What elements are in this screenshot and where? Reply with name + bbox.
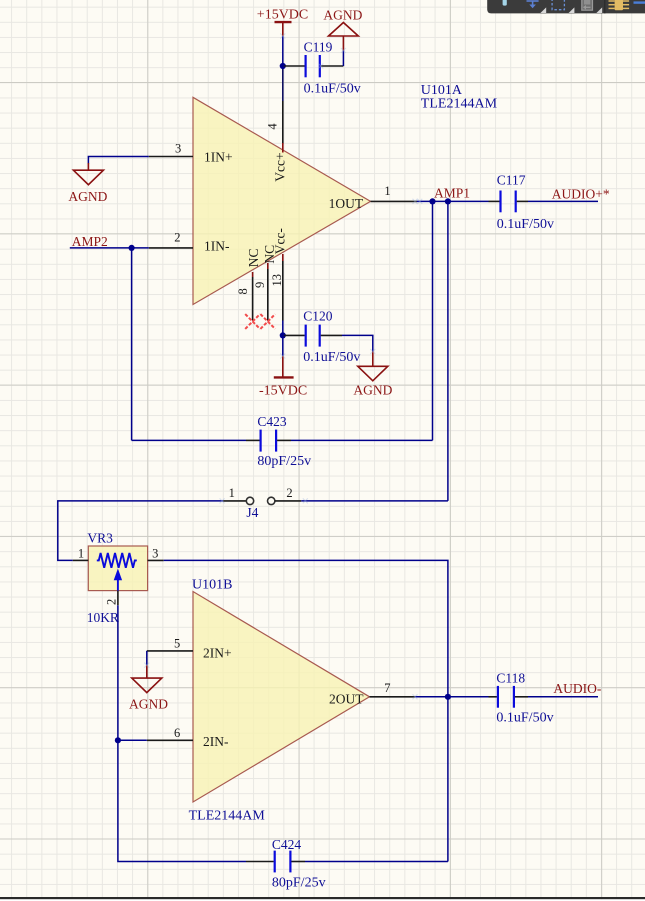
wire 2OUT tap down to C424 [447,697,449,862]
wire +15VDC to junction [282,36,284,66]
svg-text:1OUT: 1OUT [329,196,364,211]
svg-text:Vcc+: Vcc+ [273,152,288,181]
svg-text:0.1uF/50v: 0.1uF/50v [497,217,554,232]
node 2OUT junction [445,694,451,700]
svg-text:2: 2 [174,231,180,245]
svg-text:U101B: U101B [192,578,232,593]
wire AMP1 tap down to J4 pin2 [447,201,449,501]
pin 2 (1IN-) [149,247,193,249]
pin 5 (2IN+) [147,650,193,652]
svg-text:2IN-: 2IN- [203,734,229,749]
capacitor C117 [489,173,554,233]
node C423 tap [429,198,435,204]
svg-text:2: 2 [286,486,292,500]
svg-text:80pF/25v: 80pF/25v [272,876,326,891]
faint vertex marks [144,34,422,700]
svg-text:AGND: AGND [129,697,168,712]
potentiometer VR3 [73,530,164,625]
svg-text:AUDIO+*: AUDIO+* [552,187,610,202]
wire C119 to AGND [342,51,344,67]
svg-text:AUDIO-: AUDIO- [553,681,601,696]
wire junction to pin 4 [282,66,284,101]
wire 1OUT to C117 [417,200,489,202]
pin NC 9 [267,263,269,269]
svg-text:C118: C118 [496,671,525,686]
svg-text:C423: C423 [257,414,287,429]
pin 6 (2IN-) [147,739,193,741]
pin 4 lead [282,101,284,144]
wire VR3 pin2 down [117,605,119,740]
wire C118 to port [528,696,598,698]
svg-text:1IN-: 1IN- [204,239,230,254]
svg-text:1: 1 [384,184,390,198]
svg-text:10KR: 10KR [87,610,119,625]
svg-text:AMP2: AMP2 [72,234,108,249]
svg-text:1IN+: 1IN+ [204,149,233,164]
svg-text:3: 3 [152,547,158,561]
svg-text:9: 9 [253,282,267,288]
capacitor C424 feedback [246,837,326,891]
wire AMP1 tap down to C423 [432,201,434,440]
svg-text:C119: C119 [304,40,333,55]
svg-text:3: 3 [175,142,181,156]
no-connect X on pin 8 [245,314,260,329]
wire feedback left vertical [131,248,133,441]
wire J4 pin1 to VR3 [58,501,223,561]
wire pin3 to AGND [88,157,148,164]
svg-text:2: 2 [105,599,119,605]
svg-text:2OUT: 2OUT [329,692,364,707]
svg-text:0.1uF/50v: 0.1uF/50v [496,711,553,726]
toolbar fragment top-right [487,0,645,13]
op-amp U1 body (U101A) [193,97,371,304]
svg-text:J4: J4 [246,505,258,520]
svg-text:4: 4 [266,123,280,130]
svg-text:NC: NC [262,245,277,264]
wire VR3 pin3 to U101B net [164,560,448,696]
svg-text:1: 1 [229,486,235,500]
power port AGND (below C120) [358,352,388,381]
node VR3/2IN- junction [115,737,121,743]
pin NC 8 [252,272,254,277]
connector J4 [223,486,301,520]
power port AGND (U101B) [132,665,162,693]
wire down to C424 [118,740,246,861]
pin 1 (1OUT) [371,200,417,202]
svg-text:TLE2144AM: TLE2144AM [189,808,266,823]
wire C117 to port [528,200,598,202]
power port -15VDC [282,335,284,356]
svg-text:+15VDC: +15VDC [257,8,308,23]
pin 3 (1IN+) [149,156,193,158]
svg-text:0.1uF/50v: 0.1uF/50v [303,350,360,365]
svg-text:AMP1: AMP1 [434,186,470,201]
svg-text:AGND: AGND [68,189,107,204]
capacitor C120 [284,309,360,365]
node AMP2 junction [129,245,135,251]
pin 13 lead (Vcc-) [282,254,284,261]
svg-text:C424: C424 [272,837,302,852]
svg-text:AGND: AGND [353,383,392,398]
no-connect X on pin 9 [260,314,275,329]
svg-text:8: 8 [236,288,250,294]
capacitor C423 feedback [132,439,246,441]
power port +15VDC [275,22,292,36]
pin 7 (2OUT) [370,696,416,698]
svg-text:13: 13 [270,274,284,287]
svg-text:5: 5 [174,637,180,651]
wire pin5 to AGND [146,651,148,665]
wire AMP2 [70,247,149,249]
svg-text:2IN+: 2IN+ [203,646,232,661]
op-amp U2 body (U101B) [193,592,370,803]
svg-text:6: 6 [174,726,180,740]
svg-text:-15VDC: -15VDC [259,383,307,398]
power port AGND (left) [73,163,103,185]
power port AGND (top, flipped) [329,23,359,51]
svg-text:TLE2144AM: TLE2144AM [421,97,498,112]
svg-text:0.1uF/50v: 0.1uF/50v [304,82,361,97]
wire J4 pin2 to vertical [301,500,448,502]
svg-text:C117: C117 [497,173,526,188]
node Vcc- junction [280,332,286,338]
svg-text:NC: NC [246,249,261,268]
svg-text:AGND: AGND [323,7,362,22]
svg-text:VR3: VR3 [87,530,113,545]
node J4 tap [445,198,451,204]
svg-text:7: 7 [384,681,390,695]
svg-text:1: 1 [78,547,84,561]
capacitor C118 [489,671,554,726]
wire C120 to AGND [342,335,373,351]
node junction C119/+15V [280,63,286,69]
svg-text:80pF/25v: 80pF/25v [257,454,311,469]
capacitor C119 [284,40,361,97]
bottom window edge [0,897,645,899]
svg-text:C120: C120 [303,309,333,324]
